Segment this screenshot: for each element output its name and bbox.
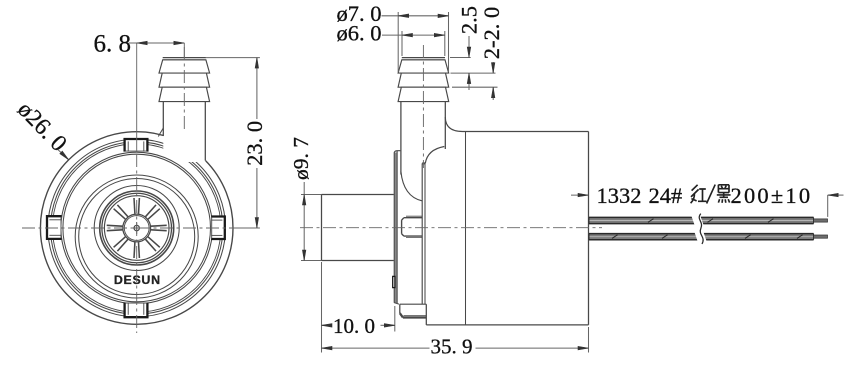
svg-text:200±10: 200±10 <box>731 183 813 208</box>
svg-text:ø9. 7: ø9. 7 <box>289 137 313 180</box>
svg-text:2-2. 0: 2-2. 0 <box>479 7 504 60</box>
svg-text:1332: 1332 <box>597 183 642 208</box>
svg-text:DESUN: DESUN <box>114 273 161 287</box>
svg-text:2.5: 2.5 <box>456 6 481 34</box>
svg-text:10. 0: 10. 0 <box>333 314 375 338</box>
svg-text:6. 8: 6. 8 <box>94 31 132 58</box>
svg-text:ø6. 0: ø6. 0 <box>337 21 382 46</box>
svg-text:24#: 24# <box>649 183 683 208</box>
svg-text:35. 9: 35. 9 <box>431 335 473 359</box>
svg-text:23. 0: 23. 0 <box>242 121 267 166</box>
